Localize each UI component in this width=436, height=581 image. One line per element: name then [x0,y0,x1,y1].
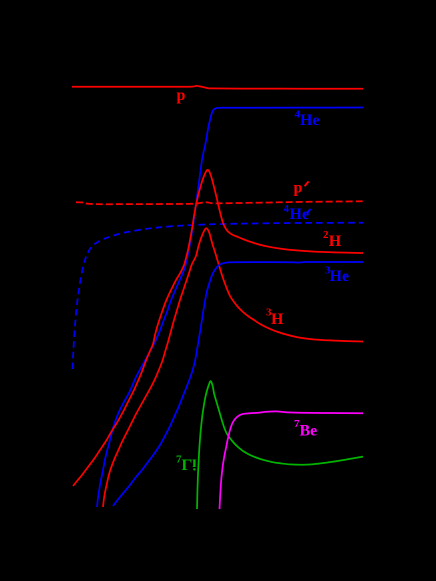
curve 4He (blue solid) [97,108,363,508]
curve p (protons, red solid) [72,86,363,89]
svg-text:p: p [294,180,303,197]
svg-text:He: He [330,268,350,285]
curve 7Li (green solid) [197,381,363,509]
svg-text:p: p [177,87,186,104]
svg-text:H: H [329,233,342,250]
svg-text:He: He [290,206,310,223]
svg-text:H: H [271,311,284,328]
svg-text:Li: Li [182,455,198,472]
svg-text:He: He [300,112,320,129]
svg-text:Be: Be [300,423,318,440]
curve 3He (blue solid) [113,262,363,506]
curve 7Be (magenta solid) [220,411,364,509]
curve p-prime (red dashed) [76,201,363,204]
curve 2H deuterium (red solid) [73,170,363,486]
curve 4He-prime (blue dashed) [73,223,364,369]
curve 3H tritium (red solid) [103,228,363,507]
